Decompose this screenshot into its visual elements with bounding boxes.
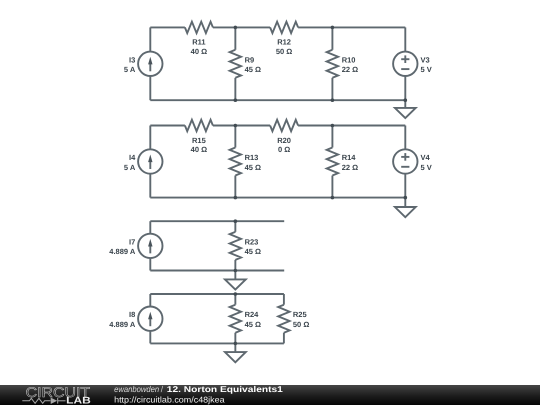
svg-text:R20: R20 [277,136,291,145]
svg-text:I3: I3 [129,55,135,64]
svg-text:40 Ω: 40 Ω [191,145,207,154]
svg-text:I8: I8 [129,310,135,319]
svg-text:R14: R14 [342,153,357,162]
svg-text:R24: R24 [245,310,260,319]
svg-text:50 Ω: 50 Ω [276,47,292,56]
svg-text:R15: R15 [192,136,206,145]
svg-text:ewanbowden: ewanbowden [114,384,159,394]
svg-text:I4: I4 [129,153,136,162]
svg-text:R25: R25 [293,310,307,319]
svg-text:5 A: 5 A [124,65,136,74]
svg-text:22 Ω: 22 Ω [342,163,358,172]
svg-text:5 V: 5 V [421,65,432,74]
svg-text:45 Ω: 45 Ω [245,163,261,172]
svg-text:45 Ω: 45 Ω [245,320,261,329]
svg-text:R11: R11 [192,38,205,47]
svg-text:4.889 A: 4.889 A [109,247,136,256]
svg-text:R12: R12 [277,38,291,47]
svg-text:4.889 A: 4.889 A [109,320,136,329]
svg-text:http://circuitlab.com/c48jkea: http://circuitlab.com/c48jkea [114,395,225,405]
svg-text:40 Ω: 40 Ω [191,47,207,56]
svg-text:45 Ω: 45 Ω [245,247,261,256]
svg-text:12. Norton Equivalents1: 12. Norton Equivalents1 [167,384,283,394]
svg-text:0 Ω: 0 Ω [278,145,290,154]
svg-text:V3: V3 [421,55,430,64]
svg-text:5 A: 5 A [124,163,136,172]
svg-text:R23: R23 [245,237,259,246]
svg-text:R10: R10 [342,55,356,64]
svg-text:V4: V4 [421,153,431,162]
svg-text:I7: I7 [129,237,135,246]
svg-text:22 Ω: 22 Ω [342,65,358,74]
svg-text:LAB: LAB [66,396,91,405]
svg-text:R13: R13 [245,153,259,162]
svg-text:45 Ω: 45 Ω [245,65,261,74]
svg-text:50 Ω: 50 Ω [293,320,309,329]
svg-text:R9: R9 [245,55,255,64]
svg-text:5 V: 5 V [421,163,432,172]
